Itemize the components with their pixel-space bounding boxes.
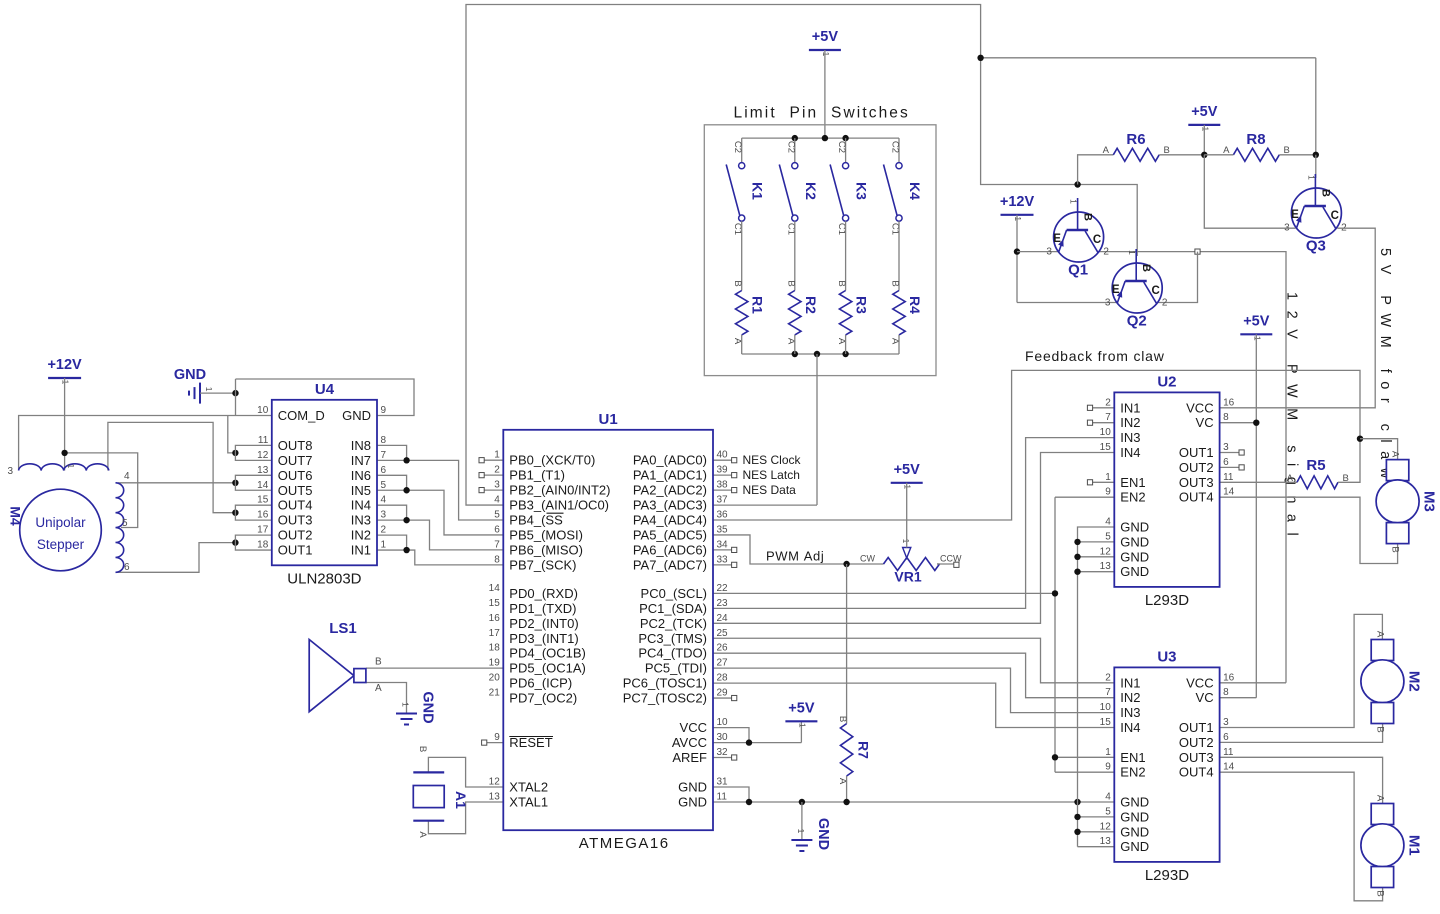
junction U4 pair OUT2/OUT1 bbox=[232, 539, 238, 545]
wire node to R8.A bbox=[1204, 154, 1233, 156]
svg-text:13: 13 bbox=[257, 465, 269, 476]
svg-text:15: 15 bbox=[489, 598, 501, 609]
junction +12V coil tap split bbox=[61, 450, 67, 456]
svg-text:C2: C2 bbox=[732, 141, 743, 153]
svg-text:10: 10 bbox=[1100, 427, 1112, 438]
svg-text:28: 28 bbox=[717, 673, 729, 684]
wire U4 IN8/IN7 to PB4 bbox=[377, 445, 503, 520]
svg-text:EN1: EN1 bbox=[1120, 475, 1145, 490]
wire R7 top from PWM Adj bbox=[846, 564, 848, 724]
svg-text:23: 23 bbox=[717, 598, 729, 609]
junction enable bus at PC0 bbox=[1052, 590, 1058, 596]
svg-text:K1: K1 bbox=[750, 182, 766, 200]
svg-text:4: 4 bbox=[1105, 517, 1111, 528]
junction R6.B/R8.A/+5V/Q3.E node bbox=[1201, 152, 1207, 158]
svg-text:3: 3 bbox=[381, 510, 387, 521]
stub PA2 NES Data bbox=[713, 483, 796, 497]
svg-text:R3: R3 bbox=[854, 296, 870, 314]
stub PA6 with terminal bbox=[713, 547, 737, 552]
limit pin switches enclosure box bbox=[704, 105, 936, 376]
stub PA7 with terminal bbox=[713, 562, 737, 567]
stub PB0 with terminal bbox=[479, 458, 503, 463]
wire VR1 CCW stub bbox=[937, 563, 954, 565]
svg-text:12: 12 bbox=[1100, 546, 1112, 557]
svg-text:IN3: IN3 bbox=[1120, 430, 1140, 445]
svg-text:8: 8 bbox=[1223, 687, 1229, 698]
svg-text:4: 4 bbox=[124, 471, 130, 482]
svg-text:24: 24 bbox=[717, 613, 729, 624]
svg-text:26: 26 bbox=[717, 643, 729, 654]
svg-text:EN2: EN2 bbox=[1120, 765, 1145, 780]
svg-text:PC1_(SDA): PC1_(SDA) bbox=[639, 601, 707, 616]
svg-text:OUT1: OUT1 bbox=[1179, 445, 1214, 460]
svg-text:1: 1 bbox=[903, 484, 913, 489]
svg-text:E: E bbox=[1291, 209, 1299, 221]
svg-text:5: 5 bbox=[122, 518, 128, 529]
wire COM_D riser and loop to pin9 bbox=[236, 379, 415, 416]
junction U4 pair OUT4/OUT3 bbox=[232, 510, 238, 516]
svg-text:OUT4: OUT4 bbox=[1179, 490, 1214, 505]
svg-text:GND: GND bbox=[1120, 795, 1149, 810]
svg-text:GND: GND bbox=[1120, 839, 1149, 854]
svg-text:A: A bbox=[1390, 451, 1401, 458]
svg-text:+5V: +5V bbox=[788, 700, 815, 716]
wire XTAL2 to crystal top bbox=[428, 757, 503, 787]
svg-text:B: B bbox=[1319, 189, 1331, 197]
svg-text:C: C bbox=[1331, 210, 1339, 222]
svg-text:22: 22 bbox=[717, 583, 729, 594]
svg-text:12: 12 bbox=[489, 777, 501, 788]
svg-text:B: B bbox=[890, 280, 901, 286]
wire U3 OUT1 to M2.A bbox=[1220, 614, 1383, 727]
svg-text:PD1_(TXD): PD1_(TXD) bbox=[509, 601, 576, 616]
svg-text:6: 6 bbox=[381, 465, 387, 476]
svg-text:B: B bbox=[837, 716, 848, 722]
svg-text:PA0_(ADC0): PA0_(ADC0) bbox=[633, 453, 707, 468]
svg-text:1: 1 bbox=[901, 539, 910, 544]
label 5V PWM for claw bbox=[1377, 248, 1393, 487]
svg-text:PA7_(ADC7): PA7_(ADC7) bbox=[633, 557, 707, 572]
svg-text:1: 1 bbox=[1252, 336, 1262, 341]
svg-text:B: B bbox=[417, 746, 428, 752]
svg-text:OUT4: OUT4 bbox=[278, 498, 313, 513]
svg-text:PA6_(ADC6): PA6_(ADC6) bbox=[633, 542, 707, 557]
svg-text:4: 4 bbox=[381, 495, 387, 506]
svg-text:IN1: IN1 bbox=[1120, 675, 1140, 690]
svg-text:+5V: +5V bbox=[1243, 313, 1270, 329]
svg-text:B: B bbox=[375, 657, 382, 668]
svg-text:+5V: +5V bbox=[894, 462, 921, 478]
svg-text:VCC: VCC bbox=[1186, 675, 1213, 690]
svg-text:PB1_(T1): PB1_(T1) bbox=[509, 468, 565, 483]
svg-text:20: 20 bbox=[489, 673, 501, 684]
svg-text:7: 7 bbox=[1105, 412, 1111, 423]
svg-text:3: 3 bbox=[494, 480, 500, 491]
wire net PC6 to U3 IN4 bbox=[713, 683, 1114, 727]
stub PB2 with terminal bbox=[479, 488, 503, 493]
svg-text:PB2_(AIN0/INT2): PB2_(AIN0/INT2) bbox=[509, 483, 610, 498]
svg-text:1: 1 bbox=[1200, 127, 1210, 132]
svg-text:M4: M4 bbox=[8, 506, 24, 526]
junction bottom rail K3 bbox=[842, 351, 848, 357]
svg-text:GND: GND bbox=[420, 691, 436, 723]
power +5V above R6/R8 node bbox=[1188, 104, 1220, 132]
svg-text:Q3: Q3 bbox=[1306, 238, 1326, 255]
svg-text:31: 31 bbox=[717, 777, 729, 788]
svg-text:7: 7 bbox=[381, 450, 387, 461]
stub U2 IN2 with terminal bbox=[1087, 420, 1114, 425]
svg-text:A1: A1 bbox=[453, 791, 469, 809]
svg-text:EN2: EN2 bbox=[1120, 490, 1145, 505]
svg-text:GND: GND bbox=[678, 795, 707, 810]
svg-text:U1: U1 bbox=[599, 411, 618, 428]
wire U3 OUT2 to M2.B bbox=[1220, 724, 1383, 743]
svg-text:7: 7 bbox=[494, 539, 500, 550]
svg-text:3: 3 bbox=[1223, 442, 1229, 453]
junction U2 VC tap bbox=[1253, 420, 1259, 426]
svg-text:VCC: VCC bbox=[680, 720, 707, 735]
svg-text:PA4_(ADC4): PA4_(ADC4) bbox=[633, 513, 707, 528]
wire net PC5 to U3 IN3 bbox=[713, 668, 1114, 712]
svg-text:OUT1: OUT1 bbox=[278, 543, 313, 558]
resistor R2 with wires bbox=[785, 221, 819, 354]
svg-text:PC0_(SCL): PC0_(SCL) bbox=[641, 586, 707, 601]
svg-text:1: 1 bbox=[797, 723, 807, 728]
svg-text:15: 15 bbox=[1100, 442, 1112, 453]
svg-text:OUT3: OUT3 bbox=[1179, 750, 1214, 765]
svg-text:Stepper: Stepper bbox=[37, 537, 85, 552]
svg-text:+5V: +5V bbox=[812, 29, 839, 45]
switch K4 bbox=[884, 138, 924, 235]
speaker LS1 bbox=[309, 620, 382, 712]
svg-text:3: 3 bbox=[1223, 717, 1229, 728]
wire pair1 line to stepper h-coil bbox=[19, 416, 272, 471]
wire net PC4 to U3 IN2 bbox=[713, 653, 1114, 698]
svg-text:PD4_(OC1B): PD4_(OC1B) bbox=[509, 646, 586, 661]
svg-text:M1: M1 bbox=[1405, 835, 1422, 856]
stub PB1 with terminal bbox=[479, 473, 503, 478]
wire +5V to R6/R8 node bbox=[1203, 125, 1205, 155]
junction IN5 tie bbox=[403, 487, 409, 493]
svg-text:12V PWM signal: 12V PWM signal bbox=[1284, 292, 1300, 546]
svg-text:C2: C2 bbox=[836, 141, 847, 153]
svg-text:PD3_(INT1): PD3_(INT1) bbox=[509, 631, 578, 646]
IC U4 ULN2803D driver bbox=[257, 381, 386, 588]
wire U2 ground chain bbox=[1078, 527, 1115, 802]
stub U2 OUT1 with terminal bbox=[1220, 450, 1245, 455]
svg-text:27: 27 bbox=[717, 658, 729, 669]
svg-text:+5V: +5V bbox=[1191, 104, 1218, 120]
svg-text:A: A bbox=[1103, 145, 1110, 156]
svg-text:29: 29 bbox=[717, 688, 729, 699]
svg-text:1: 1 bbox=[381, 540, 387, 551]
svg-text:8: 8 bbox=[1223, 412, 1229, 423]
wire net PA4 feedback from claw bbox=[713, 370, 1360, 520]
svg-text:30: 30 bbox=[717, 732, 729, 743]
wire Q3 collector to U2 VCC (5V PWM for claw) bbox=[1220, 228, 1376, 408]
motor M1 bbox=[1361, 795, 1423, 897]
transistor Q3 bbox=[1284, 174, 1347, 255]
wire U4 OUT4/OUT3 tie bbox=[235, 505, 271, 520]
svg-text:A: A bbox=[375, 683, 382, 694]
resistor R3 with wires bbox=[836, 221, 870, 354]
junction U3 GND12 bbox=[1074, 829, 1080, 835]
svg-text:39: 39 bbox=[717, 465, 729, 476]
svg-text:ATMEGA16: ATMEGA16 bbox=[579, 835, 670, 852]
svg-text:3: 3 bbox=[1105, 298, 1111, 309]
svg-text:B: B bbox=[785, 280, 796, 286]
svg-text:Unipolar: Unipolar bbox=[35, 515, 86, 530]
svg-text:RESET: RESET bbox=[509, 735, 552, 750]
svg-text:Q1: Q1 bbox=[1068, 262, 1088, 279]
svg-text:XTAL1: XTAL1 bbox=[509, 795, 548, 810]
svg-text:GND: GND bbox=[1120, 809, 1149, 824]
wire U3 OUT4 to M1.B bbox=[1220, 772, 1383, 901]
svg-text:PC3_(TMS): PC3_(TMS) bbox=[638, 631, 707, 646]
svg-text:IN4: IN4 bbox=[1120, 720, 1140, 735]
ground symbol near U4 bbox=[174, 367, 214, 404]
svg-text:R2: R2 bbox=[803, 296, 819, 314]
svg-text:IN4: IN4 bbox=[1120, 445, 1140, 460]
svg-text:OUT2: OUT2 bbox=[278, 528, 313, 543]
junction IN7 tie bbox=[403, 457, 409, 463]
svg-text:GND: GND bbox=[815, 818, 831, 850]
svg-text:OUT6: OUT6 bbox=[278, 468, 313, 483]
label Feedback from claw bbox=[1025, 348, 1165, 364]
svg-text:15: 15 bbox=[1100, 717, 1112, 728]
wire U4 IN6/IN5 to PB5 bbox=[377, 475, 503, 535]
svg-text:VC: VC bbox=[1196, 690, 1214, 705]
svg-text:PC6_(TOSC1): PC6_(TOSC1) bbox=[623, 676, 707, 691]
svg-text:9: 9 bbox=[381, 405, 387, 416]
svg-text:PWM Adj: PWM Adj bbox=[766, 549, 824, 564]
junction U2 GND12 bbox=[1074, 554, 1080, 560]
svg-text:25: 25 bbox=[717, 628, 729, 639]
svg-text:U2: U2 bbox=[1157, 373, 1176, 390]
svg-text:ULN2803D: ULN2803D bbox=[287, 570, 361, 587]
svg-text:2: 2 bbox=[1162, 298, 1168, 309]
svg-text:A: A bbox=[1374, 631, 1385, 638]
svg-text:1: 1 bbox=[1105, 472, 1111, 483]
svg-text:PD6_(ICP): PD6_(ICP) bbox=[509, 676, 572, 691]
stub U2 OUT2 with terminal bbox=[1220, 465, 1245, 470]
svg-text:M2: M2 bbox=[1405, 671, 1422, 692]
IC U1 ATMEGA16 microcontroller bbox=[489, 411, 728, 852]
svg-text:B: B bbox=[1374, 890, 1385, 896]
svg-text:GND: GND bbox=[1120, 534, 1149, 549]
svg-text:OUT8: OUT8 bbox=[278, 438, 313, 453]
resistor R5 bbox=[1287, 457, 1349, 489]
power +12V above stepper bbox=[47, 357, 82, 385]
svg-text:18: 18 bbox=[257, 540, 269, 551]
svg-text:32: 32 bbox=[717, 747, 729, 758]
svg-text:M3: M3 bbox=[1421, 491, 1438, 512]
svg-text:36: 36 bbox=[717, 510, 729, 521]
switch K1 bbox=[726, 138, 766, 235]
svg-text:VR1: VR1 bbox=[894, 569, 921, 585]
crystal A1 bbox=[413, 746, 469, 839]
wire Q3 base lead top bbox=[1315, 155, 1317, 178]
svg-text:PC7_(TOSC2): PC7_(TOSC2) bbox=[623, 691, 707, 706]
wire U4 OUT6/OUT5 tie bbox=[235, 475, 271, 490]
svg-text:OUT4: OUT4 bbox=[1179, 765, 1214, 780]
svg-text:A: A bbox=[417, 831, 428, 838]
svg-text:EN1: EN1 bbox=[1120, 750, 1145, 765]
wire main ground rail bbox=[713, 801, 1114, 803]
motor M2 bbox=[1361, 631, 1423, 733]
power +12V left of Q1 bbox=[1000, 194, 1035, 222]
svg-text:NES Clock: NES Clock bbox=[743, 453, 802, 467]
wire LS1.A to ground bbox=[366, 683, 407, 714]
svg-text:8: 8 bbox=[381, 435, 387, 446]
label PWM Adj bbox=[766, 549, 824, 564]
svg-text:Feedback from claw: Feedback from claw bbox=[1025, 348, 1165, 364]
svg-text:GND: GND bbox=[1120, 520, 1149, 535]
svg-text:NES Data: NES Data bbox=[743, 483, 797, 497]
ground symbol below rail bbox=[791, 818, 831, 851]
svg-text:OUT7: OUT7 bbox=[278, 453, 313, 468]
wire R8.B to Q3 base node bbox=[1279, 154, 1316, 156]
junction COM_D/GND tap bbox=[232, 390, 238, 396]
svg-text:38: 38 bbox=[717, 480, 729, 491]
svg-text:2: 2 bbox=[1105, 672, 1111, 683]
wire Q1 emitter bbox=[1017, 251, 1059, 253]
wire Q1 base node to R6.A bbox=[1078, 155, 1114, 185]
wire U1 GND pins to ground rail bbox=[713, 787, 749, 802]
wire net PC2 to U2 IN4 bbox=[713, 453, 1114, 624]
wire U4 OUT8/OUT7 tie bbox=[235, 445, 271, 460]
junction +12V / Q1 emitter bbox=[1014, 248, 1020, 254]
stepper M4 horizontal coil bbox=[7, 464, 108, 477]
power +5V above VR1 wiper bbox=[891, 462, 923, 490]
IC U3 L293D motor driver bbox=[1100, 648, 1235, 884]
svg-text:1: 1 bbox=[494, 450, 500, 461]
svg-text:OUT2: OUT2 bbox=[1179, 735, 1214, 750]
resistor R6 bbox=[1103, 131, 1170, 161]
wire GND to COM_D riser bbox=[200, 392, 236, 394]
resistor R7 bbox=[837, 716, 872, 785]
motor M3 bbox=[1376, 451, 1438, 553]
svg-text:GND: GND bbox=[342, 408, 371, 423]
junction AVCC tap bbox=[746, 739, 752, 745]
svg-text:L293D: L293D bbox=[1145, 867, 1189, 884]
svg-text:9: 9 bbox=[494, 732, 500, 743]
junction U2 GND5 bbox=[1074, 539, 1080, 545]
svg-text:OUT1: OUT1 bbox=[1179, 720, 1214, 735]
svg-text:14: 14 bbox=[257, 480, 269, 491]
svg-text:NES Latch: NES Latch bbox=[743, 468, 800, 482]
wire net PC1 to U2 IN3 bbox=[713, 438, 1114, 609]
stub AREF with terminal bbox=[713, 755, 737, 760]
stepper M4 vertical coil bbox=[116, 471, 131, 573]
wire U4 IN2/IN1 to PB7 bbox=[377, 535, 503, 565]
wire U3 OUT3 to M1.A bbox=[1220, 757, 1383, 803]
transistor Q2 bbox=[1105, 249, 1168, 330]
svg-text:11: 11 bbox=[1223, 747, 1234, 758]
junction IN3 tie bbox=[403, 517, 409, 523]
wire ground symbol drop bbox=[801, 802, 803, 840]
wire +5V to U2/U3 VC pins bbox=[1220, 334, 1257, 697]
svg-text:PB5_(MOSI): PB5_(MOSI) bbox=[509, 527, 583, 542]
svg-text:9: 9 bbox=[1105, 762, 1111, 773]
svg-text:8: 8 bbox=[494, 554, 500, 565]
svg-text:13: 13 bbox=[489, 792, 501, 803]
switch K2 bbox=[779, 138, 819, 235]
svg-text:E: E bbox=[1112, 284, 1120, 296]
wire R6.B to node bbox=[1159, 154, 1204, 156]
svg-text:AREF: AREF bbox=[672, 750, 707, 765]
junction U2/U3 ground chains on rail bbox=[1074, 799, 1080, 805]
junction bottom rail K2 bbox=[792, 351, 798, 357]
svg-text:R7: R7 bbox=[856, 741, 872, 759]
svg-text:R1: R1 bbox=[750, 296, 766, 314]
svg-text:11: 11 bbox=[717, 792, 728, 803]
svg-text:13: 13 bbox=[1100, 561, 1112, 572]
svg-text:5: 5 bbox=[1105, 806, 1111, 817]
svg-text:10: 10 bbox=[257, 405, 269, 416]
svg-text:+12V: +12V bbox=[47, 357, 82, 373]
svg-text:40: 40 bbox=[717, 450, 729, 461]
wire net PC3 to U3 IN1 bbox=[713, 638, 1114, 683]
svg-text:21: 21 bbox=[489, 688, 501, 699]
wire LS1.B to PD5 bbox=[366, 667, 503, 669]
wire U2 OUT3 to R5.A bbox=[1220, 481, 1297, 483]
svg-text:1: 1 bbox=[796, 829, 806, 834]
svg-text:16: 16 bbox=[1223, 397, 1235, 408]
svg-text:9: 9 bbox=[1105, 487, 1111, 498]
svg-text:1: 1 bbox=[204, 387, 214, 392]
svg-text:C2: C2 bbox=[890, 141, 901, 153]
svg-text:18: 18 bbox=[489, 643, 501, 654]
svg-text:35: 35 bbox=[717, 524, 729, 535]
svg-text:17: 17 bbox=[257, 525, 269, 536]
junction Q1 base tap bbox=[1074, 181, 1080, 187]
wire U3 ground chain bbox=[1078, 802, 1115, 847]
junction U2 GND13 bbox=[1074, 569, 1080, 575]
svg-text:PD5_(OC1A): PD5_(OC1A) bbox=[509, 661, 586, 676]
transistor Q1 bbox=[1046, 198, 1109, 279]
junction M3.A node bbox=[1357, 436, 1363, 442]
wire net PA5 PWM Adj bbox=[713, 535, 881, 564]
svg-text:6: 6 bbox=[494, 524, 500, 535]
svg-text:C: C bbox=[1151, 285, 1159, 297]
svg-text:14: 14 bbox=[1223, 762, 1235, 773]
svg-text:2: 2 bbox=[1103, 247, 1109, 258]
wire pair4 line to v-coil bottom bbox=[116, 543, 236, 573]
svg-text:1: 1 bbox=[1306, 175, 1316, 180]
power +5V above U1 VCC bbox=[785, 700, 817, 728]
power +5V above limit switch box bbox=[809, 29, 841, 57]
wire +5V to switch top rail bbox=[824, 50, 826, 138]
svg-text:GND: GND bbox=[1120, 824, 1149, 839]
svg-text:PA3_(ADC3): PA3_(ADC3) bbox=[633, 498, 707, 513]
svg-text:+12V: +12V bbox=[1000, 194, 1035, 210]
svg-text:R4: R4 bbox=[907, 296, 923, 314]
svg-text:PB0_(XCK/T0): PB0_(XCK/T0) bbox=[509, 453, 595, 468]
svg-text:16: 16 bbox=[489, 613, 501, 624]
svg-text:1: 1 bbox=[61, 380, 71, 385]
svg-text:PC5_(TDI): PC5_(TDI) bbox=[645, 661, 707, 676]
svg-text:2: 2 bbox=[1105, 397, 1111, 408]
wire Q2 emitter bbox=[1017, 302, 1118, 304]
svg-text:5: 5 bbox=[494, 510, 500, 521]
svg-text:PA5_(ADC5): PA5_(ADC5) bbox=[633, 527, 707, 542]
wire Q1 collector to 12V-PWM drop bbox=[1099, 252, 1286, 683]
svg-text:IN3: IN3 bbox=[351, 513, 371, 528]
svg-text:1: 1 bbox=[1013, 216, 1023, 221]
wire switch bottom rail bbox=[742, 353, 899, 355]
svg-text:IN2: IN2 bbox=[1120, 415, 1140, 430]
